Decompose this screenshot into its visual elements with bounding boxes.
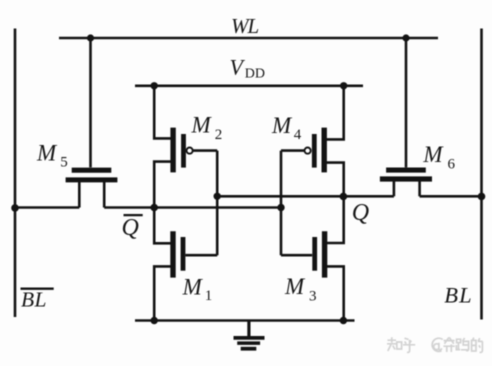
svg-text:BL: BL — [444, 282, 473, 307]
junction BL / Q wire — [478, 193, 486, 201]
wire Q down to M3 drain stub — [326, 196, 344, 243]
junction WL / M6 gate — [402, 34, 409, 41]
svg-text:V: V — [230, 55, 246, 80]
transistor M6 (right access NMOS) — [380, 38, 432, 196]
svg-text:1: 1 — [205, 288, 213, 304]
svg-text:Q: Q — [122, 215, 139, 241]
wire M6 drain to BL — [420, 195, 482, 198]
svg-text:Q: Q — [352, 200, 369, 226]
junction VDD / left inverter rail — [151, 82, 158, 89]
label M1 — [182, 275, 213, 304]
label M4 — [271, 113, 302, 143]
svg-text:M: M — [182, 275, 204, 300]
svg-text:M: M — [284, 274, 306, 299]
node Q label — [352, 200, 369, 226]
transistor M4 (right PMOS) — [281, 128, 324, 173]
label M2 — [191, 113, 223, 143]
overbar of Qbar label — [124, 214, 143, 216]
junction Q wire / right inverter rail — [340, 193, 348, 201]
svg-text:6: 6 — [448, 156, 456, 172]
junction Qbar wire / right gate line — [277, 204, 284, 211]
overbar of BLbar label — [21, 288, 54, 290]
svg-text:WL: WL — [231, 14, 258, 38]
junction WL / M5 gate — [87, 34, 94, 41]
wire left inverter VDD rail + M2 source stub — [154, 86, 171, 139]
transistor M5 (left access NMOS) — [66, 38, 118, 208]
ground — [234, 321, 265, 349]
net label VDD — [230, 55, 266, 82]
junction BLbar / Qbar wire — [11, 204, 19, 212]
label M5 — [36, 140, 68, 170]
net label WL — [231, 14, 258, 38]
junction Q wire / left gate line — [214, 193, 221, 200]
wire left gate line (M2 gate to M1 gate) — [216, 151, 219, 256]
wire Qbar node to right inverter gates — [154, 206, 281, 209]
wire BLbar bitline (left vertical) — [14, 29, 17, 318]
watermark 知乎 @奔跑的 (drawn as light strokes) — [387, 337, 483, 352]
label M6 — [422, 142, 455, 173]
junction GND rail / M3 source — [340, 317, 347, 324]
wire M1 source stub down to GND rail — [154, 266, 171, 320]
wire right gate line (M4 gate to M3 gate) — [280, 151, 283, 256]
svg-text:BL: BL — [21, 287, 47, 311]
svg-text:M: M — [191, 113, 213, 138]
wire Q node (left gates to M6 source, crosses right gate line) — [217, 195, 394, 198]
wire GND rail — [135, 319, 355, 322]
wire WL (word line) — [59, 37, 438, 40]
wire BLbar to M5 source — [15, 206, 79, 209]
transistor M2 (left PMOS) — [173, 128, 217, 173]
wire VDD rail — [135, 85, 363, 88]
wire M5 drain to Qbar node — [104, 206, 154, 209]
transistor M1 (left NMOS driver) — [173, 231, 217, 277]
wire BL bitline (right vertical) — [480, 29, 483, 320]
wire M4 drain stub down to Q — [326, 163, 344, 197]
svg-text:M: M — [422, 142, 444, 167]
svg-text:DD: DD — [245, 66, 265, 81]
svg-text:M: M — [36, 140, 58, 165]
wire M3 source stub down to GND rail — [326, 266, 344, 320]
svg-text:M: M — [271, 113, 293, 138]
svg-text:4: 4 — [294, 127, 302, 143]
svg-text:3: 3 — [309, 289, 317, 305]
label M3 — [284, 274, 317, 304]
svg-text:2: 2 — [215, 127, 223, 143]
net label BL — [444, 282, 473, 307]
junction VDD / right inverter rail — [340, 82, 347, 89]
wire M2 drain stub down to Qbar — [154, 162, 171, 208]
wire Qbar down to M1 drain stub — [154, 208, 171, 244]
junction Qbar / left inverter rail — [150, 204, 158, 212]
svg-text:5: 5 — [60, 155, 67, 171]
node Qbar label — [122, 215, 139, 241]
net label BLbar — [21, 287, 47, 311]
junction GND rail / M1 source — [151, 317, 158, 324]
transistor M3 (right NMOS driver) — [281, 231, 325, 277]
wire right inverter VDD rail + M4 source stub — [326, 86, 344, 140]
